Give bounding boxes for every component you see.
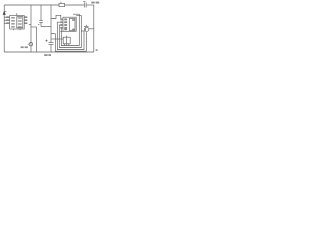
- wire loop L1: [57, 22, 84, 49]
- label 48-49: [91, 2, 94, 4]
- IC U1: [10, 16, 25, 30]
- label near C3: [21, 46, 24, 48]
- wire top rail mid: [65, 4, 84, 6]
- U1 inner bars: [11, 17, 15, 18]
- relay K1: [63, 37, 70, 44]
- transistor Q1: [84, 27, 88, 31]
- source arrow: [3, 11, 6, 15]
- label Fig 1: [44, 54, 47, 56]
- U1 left pin pads: [6, 16, 9, 18]
- junction dots: [30, 4, 31, 5]
- wire left rail: [3, 5, 5, 52]
- wire branch B3 top: [40, 5, 42, 20]
- wire branch B2: [36, 27, 38, 52]
- wire node A to bus: [41, 26, 51, 28]
- wire loop L0: [55, 32, 86, 51]
- wire branch B4: [50, 5, 52, 43]
- U1 bottom pin ticks: [13, 29, 15, 30]
- wire top rail right: [87, 4, 94, 6]
- wire bus H0: [51, 33, 55, 35]
- wire loop L2: [59, 16, 81, 48]
- IC U2: [63, 17, 76, 31]
- wire stub node A: [31, 26, 37, 28]
- U2 left pin pads: [60, 19, 63, 21]
- capacitor C2: [49, 42, 54, 44]
- diode D1: [29, 43, 32, 46]
- wire right rail: [93, 5, 95, 52]
- wire branch B1: [30, 5, 32, 52]
- wire top rail left: [4, 4, 59, 6]
- U1 right pin pads: [24, 16, 27, 18]
- label plus: [96, 49, 98, 51]
- wire step to U2 pin1: [51, 15, 61, 18]
- node tick left of B1: [29, 24, 31, 26]
- wire branch B4 bottom: [50, 45, 52, 53]
- fuse F1: [59, 3, 65, 6]
- wire branch B3 bottom: [40, 23, 42, 27]
- U1 left pin stubs: [4, 16, 6, 18]
- wire bottom rail: [4, 51, 94, 53]
- wire bus H1: [51, 38, 63, 40]
- U2 inner pads: [64, 19, 67, 21]
- capacitor C4: [83, 3, 85, 8]
- wire loop L3: [61, 14, 79, 45]
- capacitor C1: [39, 20, 43, 22]
